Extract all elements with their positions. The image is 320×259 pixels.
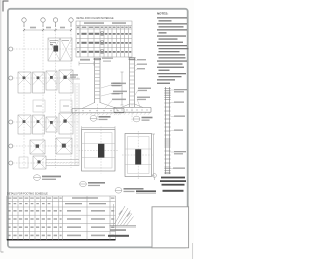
svg-text:DETAILS FOR FOOTING SCHEDULE: DETAILS FOR FOOTING SCHEDULE — [7, 193, 48, 196]
svg-text:DETAIL FOR COLUMN SCHEDULE: DETAIL FOR COLUMN SCHEDULE — [77, 17, 114, 20]
svg-text:NOTES:: NOTES: — [157, 12, 168, 16]
